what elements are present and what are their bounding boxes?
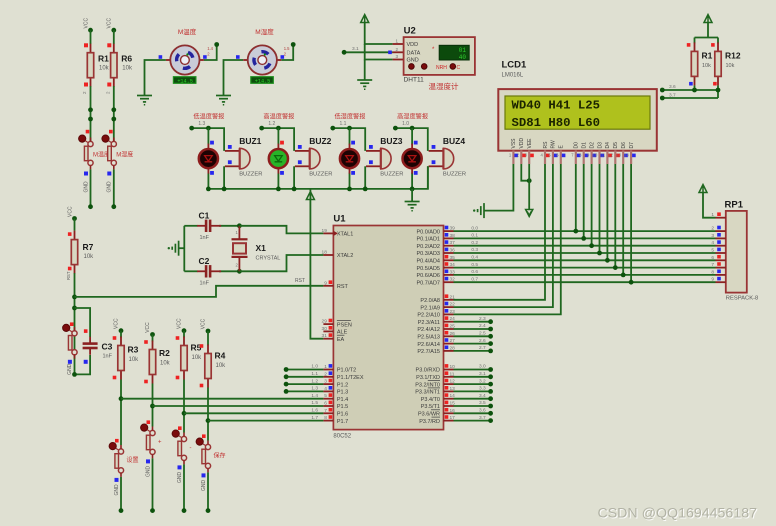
pin P3.3/INT1 (13) bbox=[444, 390, 454, 392]
wire to R12 bbox=[717, 38, 719, 44]
power arrow down LCD bbox=[526, 210, 533, 217]
node net 1.3 end bbox=[284, 389, 289, 394]
svg-text:R12: R12 bbox=[725, 51, 741, 61]
svg-text:1: 1 bbox=[711, 212, 714, 218]
pin RP1 9 bbox=[716, 281, 726, 283]
motor M2 bbox=[243, 45, 281, 84]
node bottom rail junction bbox=[292, 187, 297, 192]
node net end 1.3 bbox=[189, 126, 194, 131]
svg-text:BUZ4: BUZ4 bbox=[443, 136, 465, 146]
wire P2.4 net stub bbox=[454, 328, 491, 330]
svg-text:9: 9 bbox=[324, 280, 327, 286]
svg-text:GND: GND bbox=[177, 472, 183, 484]
svg-text:3.4: 3.4 bbox=[479, 393, 486, 399]
svg-text:1.3: 1.3 bbox=[311, 386, 318, 392]
svg-text:1.6: 1.6 bbox=[311, 408, 318, 414]
resistor R3 bbox=[118, 337, 124, 380]
pin P3.2/INT0 (12) bbox=[444, 383, 454, 385]
node net 3.5 end bbox=[488, 404, 493, 409]
svg-text:P3.3/INT1: P3.3/INT1 bbox=[415, 390, 440, 396]
svg-text:P3.0/RXD: P3.0/RXD bbox=[416, 368, 440, 374]
svg-text:P0.3/AD3: P0.3/AD3 bbox=[416, 251, 440, 257]
node net 2.7 end bbox=[488, 349, 493, 354]
svg-text:P2.7/A15: P2.7/A15 bbox=[417, 349, 440, 355]
wire P2.0 to LCD control bbox=[454, 164, 546, 300]
svg-text:P2.5/A13: P2.5/A13 bbox=[417, 335, 440, 341]
pin P0.5/AD5 (34) bbox=[444, 267, 454, 269]
wire buzzer BUZ1 down bbox=[223, 166, 225, 189]
wire U2 GND pin bbox=[365, 44, 393, 60]
pin P0.3/AD3 (36) bbox=[444, 252, 454, 254]
motor M1 bbox=[166, 45, 204, 84]
svg-text:P1.4: P1.4 bbox=[337, 397, 348, 403]
svg-text:1nF: 1nF bbox=[200, 281, 210, 287]
wire VCC to R2 bbox=[152, 335, 154, 342]
node net end 1.0 bbox=[393, 126, 398, 131]
svg-text:VCC: VCC bbox=[107, 18, 113, 29]
ground LCD VSS bbox=[478, 203, 484, 218]
node net 3.2 end bbox=[488, 382, 493, 387]
resistor R12 bbox=[715, 42, 721, 85]
svg-text:-: - bbox=[190, 446, 192, 452]
svg-text:PSEN: PSEN bbox=[337, 322, 352, 328]
node junction top BUZ1 bbox=[206, 126, 211, 131]
wire R1 to switch bbox=[90, 86, 92, 141]
svg-text:SD81 H80 L60: SD81 H80 L60 bbox=[512, 116, 601, 130]
svg-text:P2.0/A8: P2.0/A8 bbox=[420, 298, 440, 304]
wire buzzer BUZ4 down bbox=[427, 166, 429, 189]
svg-text:D0: D0 bbox=[574, 142, 580, 149]
svg-text:1.0: 1.0 bbox=[311, 364, 318, 370]
node P0.2 riser junction bbox=[589, 243, 594, 248]
svg-text:P2.6/A14: P2.6/A14 bbox=[417, 342, 440, 348]
node P0.4 riser junction bbox=[605, 258, 610, 263]
wire LED BUZ2 cathode down bbox=[277, 173, 279, 189]
node P0.5 riser junction bbox=[613, 265, 618, 270]
node VCC R2 bbox=[150, 332, 155, 337]
node junction R4 to P1 wire bbox=[206, 418, 211, 423]
node wire end R2 column bbox=[150, 508, 155, 513]
wire R2 to button bbox=[152, 384, 154, 427]
node XTAL2 net bbox=[237, 269, 242, 274]
capacitor C2 bbox=[197, 265, 221, 277]
wire top of group BUZ4 bbox=[395, 128, 427, 151]
wire RST to U1 pin 9 bbox=[75, 286, 324, 297]
svg-text:LCD1: LCD1 bbox=[502, 60, 528, 71]
node P0.6 riser junction bbox=[621, 273, 626, 278]
svg-text:C1: C1 bbox=[199, 211, 210, 221]
svg-text:C2: C2 bbox=[199, 256, 210, 266]
wire to C2 bbox=[184, 270, 197, 272]
node P0.1 riser junction bbox=[581, 236, 586, 241]
LED D-BUZ1 bbox=[199, 144, 218, 174]
svg-text:+14.5: +14.5 bbox=[177, 78, 193, 84]
svg-text:高湿度警报: 高湿度警报 bbox=[397, 113, 428, 121]
svg-text:D5: D5 bbox=[613, 142, 619, 149]
svg-text:1.3: 1.3 bbox=[198, 121, 205, 127]
svg-text:4: 4 bbox=[711, 240, 714, 246]
svg-text:P3.1/TXD: P3.1/TXD bbox=[416, 375, 440, 381]
pin P2.0/A8 (21) bbox=[444, 299, 454, 301]
svg-text:1.0: 1.0 bbox=[402, 121, 409, 127]
svg-text:10k: 10k bbox=[84, 254, 95, 260]
wire button 设置 to end bbox=[120, 477, 122, 511]
svg-text:WD40 H41 L25: WD40 H41 L25 bbox=[512, 98, 601, 112]
node net 3.4 end bbox=[488, 396, 493, 401]
svg-text:1.4: 1.4 bbox=[311, 393, 318, 399]
node junction top BUZ4 bbox=[410, 126, 415, 131]
svg-text:P1.3: P1.3 bbox=[337, 390, 348, 396]
wire riser D2 bbox=[591, 164, 593, 246]
wire LED BUZ4 cathode down bbox=[411, 173, 413, 189]
svg-text:3.2: 3.2 bbox=[479, 378, 486, 384]
wire to C1 bbox=[184, 225, 197, 227]
node VCC R3 bbox=[119, 328, 124, 333]
resistor pack RP1 bbox=[726, 211, 747, 293]
svg-text:GND: GND bbox=[83, 181, 89, 193]
pin XTAL1 (19) bbox=[323, 232, 333, 234]
wire C2 to crystal node bbox=[219, 270, 239, 272]
svg-text:D7: D7 bbox=[629, 142, 635, 149]
svg-text:P0.1/AD1: P0.1/AD1 bbox=[416, 237, 440, 243]
svg-text:U2: U2 bbox=[404, 26, 416, 37]
svg-text:2: 2 bbox=[711, 226, 714, 232]
svg-text:BUZZER: BUZZER bbox=[443, 172, 466, 178]
svg-text:10k: 10k bbox=[129, 357, 140, 363]
wire R7 to reset button bbox=[74, 273, 76, 376]
svg-text:RST: RST bbox=[295, 278, 305, 284]
wire button 保存 to end bbox=[207, 472, 209, 510]
resistor R7 bbox=[71, 231, 77, 274]
wire ground stub bbox=[179, 247, 185, 249]
push button 保存 bbox=[196, 438, 211, 472]
svg-text:4: 4 bbox=[324, 386, 327, 392]
svg-text:3.1: 3.1 bbox=[479, 371, 486, 377]
push button + bbox=[141, 424, 156, 458]
pin P0.1/AD1 (38) bbox=[444, 237, 454, 239]
wire VCC to RP1 pin1 bbox=[703, 193, 716, 218]
node reset loop top bbox=[72, 306, 77, 311]
wire VCC to R6 bbox=[113, 30, 115, 44]
wire P0.0 bus bbox=[454, 230, 716, 232]
VCC power R11 R12 bbox=[704, 15, 712, 23]
svg-text:0.4: 0.4 bbox=[471, 255, 478, 261]
svg-text:VCC: VCC bbox=[114, 318, 120, 329]
svg-text:GND: GND bbox=[114, 484, 120, 496]
svg-text:0.6: 0.6 bbox=[471, 269, 478, 275]
wire P3.3 net stub bbox=[454, 390, 491, 392]
pin P2.4/A12 (25) bbox=[444, 328, 454, 330]
svg-text:+14.5: +14.5 bbox=[255, 78, 271, 84]
wire to LED BUZ2 anode bbox=[277, 128, 279, 145]
pin P2.1/A9 (22) bbox=[444, 306, 454, 308]
svg-text:RST: RST bbox=[66, 271, 71, 280]
svg-text:P2.1/A9: P2.1/A9 bbox=[420, 305, 440, 311]
node net 1.0 end bbox=[284, 367, 289, 372]
svg-text:GND: GND bbox=[407, 58, 419, 64]
pin P1.3 (4) bbox=[323, 390, 333, 392]
wire R3 to button bbox=[120, 380, 122, 446]
node VCC junction R6 bbox=[111, 28, 116, 33]
svg-text:0.3: 0.3 bbox=[471, 247, 478, 253]
svg-text:P3.7/RD: P3.7/RD bbox=[419, 419, 440, 425]
push button - bbox=[172, 430, 187, 464]
node reset loop bottom bbox=[72, 372, 77, 377]
svg-text:10k: 10k bbox=[702, 63, 711, 69]
pin RP1 8 bbox=[716, 274, 726, 276]
resistor R11 bbox=[691, 42, 697, 85]
node net 3.1 end bbox=[488, 374, 493, 379]
node junction R1 a bbox=[88, 107, 93, 112]
svg-text:P1.1/T2EX: P1.1/T2EX bbox=[337, 375, 364, 381]
svg-text:P1.6: P1.6 bbox=[337, 412, 348, 418]
svg-text:VDD: VDD bbox=[407, 42, 419, 48]
svg-text:BUZZER: BUZZER bbox=[380, 172, 403, 178]
svg-text:2.6: 2.6 bbox=[479, 338, 486, 344]
svg-text:P1.7: P1.7 bbox=[337, 419, 348, 425]
node net 3.6 end bbox=[488, 411, 493, 416]
wire R6 to switch bbox=[113, 86, 115, 141]
node P0.7 riser junction bbox=[629, 280, 634, 285]
svg-text:P3.2/INT0: P3.2/INT0 bbox=[415, 382, 440, 388]
svg-text:GND: GND bbox=[107, 181, 113, 193]
wire top of group BUZ1 bbox=[192, 128, 224, 151]
wire P3.7 net stub bbox=[454, 420, 491, 422]
wire P2.7 net stub bbox=[454, 350, 491, 352]
wire P0.4 bus bbox=[454, 259, 716, 261]
svg-text:0.0: 0.0 bbox=[471, 225, 478, 231]
crystal X1 bbox=[232, 226, 248, 271]
node RST junction bbox=[72, 295, 77, 300]
pin P3.0/RXD (10) bbox=[444, 369, 454, 371]
svg-text:12: 12 bbox=[608, 153, 613, 158]
svg-text:P3.6/WR: P3.6/WR bbox=[418, 412, 440, 418]
svg-text:+: + bbox=[158, 440, 162, 446]
wire net 3.7 bbox=[662, 97, 718, 99]
ground crystal cap bbox=[172, 241, 178, 256]
wire riser D1 bbox=[583, 164, 585, 238]
svg-text:7: 7 bbox=[711, 262, 714, 268]
node wire end R1 column bbox=[88, 204, 93, 209]
wire R4 to button bbox=[207, 388, 209, 441]
svg-text:3.5: 3.5 bbox=[479, 400, 486, 406]
svg-text:11: 11 bbox=[601, 153, 606, 158]
svg-text:M湿度: M湿度 bbox=[255, 27, 274, 36]
svg-text:3.7: 3.7 bbox=[669, 92, 676, 98]
svg-text:R2: R2 bbox=[159, 348, 170, 358]
push button switch near R6 bbox=[102, 135, 117, 169]
wire P1.3 net bbox=[286, 390, 323, 392]
svg-text:7: 7 bbox=[324, 408, 327, 414]
wire R12 down bbox=[717, 85, 719, 98]
svg-text:EA: EA bbox=[337, 337, 345, 343]
node bottom rail junction bbox=[222, 187, 227, 192]
node net 2.6 end bbox=[488, 341, 493, 346]
node junction R6 a bbox=[111, 107, 116, 112]
node bottom rail junction bbox=[347, 187, 352, 192]
node net 2.5 end bbox=[488, 334, 493, 339]
wire VCC to R3 bbox=[120, 331, 122, 338]
svg-text:LM016L: LM016L bbox=[502, 73, 524, 79]
node VCC junction R1 bbox=[88, 28, 93, 33]
node P0.3 riser junction bbox=[597, 251, 602, 256]
node VCC R4 bbox=[206, 329, 211, 334]
svg-text:29: 29 bbox=[322, 319, 328, 325]
svg-text:3.6: 3.6 bbox=[669, 84, 676, 90]
pin P1.6 (7) bbox=[323, 412, 333, 414]
svg-text:3.3: 3.3 bbox=[479, 386, 486, 392]
node XTAL1 net bbox=[237, 223, 242, 228]
node motor M2 net end bbox=[291, 42, 296, 47]
pin P0.4/AD4 (35) bbox=[444, 259, 454, 261]
wire P2.1 to LCD control bbox=[454, 164, 553, 307]
svg-text:31: 31 bbox=[322, 333, 328, 339]
wire LED BUZ3 cathode down bbox=[349, 173, 351, 189]
node net end 1.1 bbox=[330, 126, 335, 131]
pin P1.5 (6) bbox=[323, 405, 333, 407]
ground U2 bbox=[357, 80, 372, 86]
wire buzzer bottom rail to BUZ4 bbox=[208, 166, 428, 189]
svg-text:高温度警报: 高温度警报 bbox=[263, 113, 294, 121]
svg-text:1.2: 1.2 bbox=[268, 121, 275, 127]
wire VCC to EA bbox=[310, 189, 323, 339]
ground motor M1 bbox=[137, 96, 152, 102]
svg-text:1nF: 1nF bbox=[103, 354, 113, 360]
node R11 junction bbox=[692, 88, 697, 93]
svg-text:P0.7/AD7: P0.7/AD7 bbox=[416, 280, 440, 286]
wire P1.1 net bbox=[286, 376, 323, 378]
svg-text:RW: RW bbox=[551, 140, 557, 149]
resistor R5 bbox=[181, 337, 187, 380]
wire motor M1 left to ground bbox=[145, 60, 166, 96]
pin P2.3/A11 (24) bbox=[444, 321, 454, 323]
pin P1.0/T2 (1) bbox=[323, 369, 333, 371]
svg-text:2.7: 2.7 bbox=[479, 345, 486, 351]
wire button - to end bbox=[183, 464, 185, 510]
wire P0.7 bus bbox=[454, 281, 716, 283]
svg-text:ALE: ALE bbox=[337, 330, 348, 336]
wire VCC to R4 bbox=[207, 331, 209, 346]
wire buzzer BUZ3 down bbox=[364, 166, 366, 189]
wire cap common vertical bbox=[183, 226, 185, 271]
node R12 crossing bbox=[716, 88, 721, 93]
svg-text:2: 2 bbox=[324, 371, 327, 377]
svg-text:1.5: 1.5 bbox=[284, 46, 290, 51]
node junction R2 to P1 wire bbox=[150, 404, 155, 409]
wire riser D6 bbox=[622, 164, 624, 275]
wire top of group BUZ2 bbox=[262, 128, 294, 151]
node junction R6 b bbox=[111, 117, 116, 122]
wire riser D3 bbox=[599, 164, 601, 253]
wire VCC to R1 bbox=[90, 30, 92, 44]
wire P0.5 bus bbox=[454, 267, 716, 269]
svg-text:RST: RST bbox=[337, 284, 349, 290]
buzzer BUZ1 bbox=[225, 148, 250, 169]
wire P0.6 bus bbox=[454, 274, 716, 276]
wire motor M2 left to ground bbox=[224, 60, 244, 96]
wire riser D7 bbox=[630, 164, 632, 282]
push button 设置 bbox=[109, 443, 124, 477]
svg-text:5: 5 bbox=[711, 248, 714, 254]
node bottom rail junction bbox=[276, 187, 281, 192]
wire to XTAL2 bbox=[239, 255, 323, 271]
pin P0.7/AD7 (32) bbox=[444, 281, 454, 283]
wire P1.5 to button column bbox=[153, 405, 324, 407]
wire P1.7 to button column bbox=[208, 420, 323, 422]
svg-text:P1.2: P1.2 bbox=[337, 382, 348, 388]
svg-text:6: 6 bbox=[324, 401, 327, 407]
wire R11 down bbox=[694, 85, 696, 90]
svg-text:DHT11: DHT11 bbox=[404, 77, 424, 84]
pin P1.4 (5) bbox=[323, 398, 333, 400]
pin ALE (30) bbox=[323, 330, 333, 332]
wire P0.3 bus bbox=[454, 252, 716, 254]
wire net 3.6 bbox=[662, 89, 718, 91]
wire U2 DATA net bbox=[344, 51, 393, 53]
svg-text:13: 13 bbox=[616, 153, 621, 158]
svg-text:P0.5/AD5: P0.5/AD5 bbox=[416, 266, 440, 272]
svg-text:DATA: DATA bbox=[407, 51, 421, 57]
pin RP1 5 bbox=[716, 252, 726, 254]
svg-text:NRH: NRH bbox=[436, 65, 447, 71]
svg-text:P0.6/AD6: P0.6/AD6 bbox=[416, 273, 440, 279]
wire P1.0 net bbox=[286, 369, 323, 371]
svg-text:19: 19 bbox=[322, 228, 328, 234]
svg-text:3.1: 3.1 bbox=[352, 46, 359, 52]
wire VCC to R5 bbox=[183, 331, 185, 338]
svg-text:9: 9 bbox=[711, 277, 714, 283]
svg-text:设置: 设置 bbox=[127, 456, 139, 464]
node net 3.7 end bbox=[488, 418, 493, 423]
svg-text:C3: C3 bbox=[102, 342, 113, 352]
wire top of group BUZ3 bbox=[333, 128, 365, 151]
svg-text:VEE: VEE bbox=[527, 138, 533, 149]
ground buzzer rail bbox=[405, 202, 420, 208]
pin RP1 4 bbox=[716, 245, 726, 247]
wire to XTAL1 bbox=[239, 226, 323, 234]
node wire end R5 column bbox=[182, 508, 187, 513]
buzzer BUZ2 bbox=[295, 148, 320, 169]
svg-text:P3.4/T0: P3.4/T0 bbox=[421, 397, 440, 403]
wire VCC down bbox=[707, 23, 709, 38]
node VCC R7 bbox=[72, 216, 77, 221]
svg-text:X1: X1 bbox=[256, 243, 267, 253]
node junction R1 b bbox=[88, 117, 93, 122]
svg-text:XTAL1: XTAL1 bbox=[337, 232, 353, 238]
svg-text:1nF: 1nF bbox=[200, 235, 210, 241]
pin P3.6/WR (16) bbox=[444, 412, 454, 414]
svg-text:1.7: 1.7 bbox=[311, 415, 318, 421]
push button switch near R1 bbox=[79, 135, 94, 169]
LCD display LCD1 bbox=[498, 89, 657, 151]
node net end 1.2 bbox=[259, 126, 264, 131]
svg-text:VCC: VCC bbox=[201, 318, 207, 329]
wire motor M1 right bbox=[204, 45, 217, 61]
capacitor C3 bbox=[83, 337, 98, 355]
svg-text:D2: D2 bbox=[589, 142, 595, 149]
svg-text:RP1: RP1 bbox=[725, 200, 744, 211]
pin P1.7 (8) bbox=[323, 420, 333, 422]
microcontroller U1 80C52 bbox=[333, 226, 443, 430]
svg-text:1: 1 bbox=[324, 364, 327, 370]
node net 2.3 end bbox=[488, 319, 493, 324]
resistor R1 bbox=[87, 44, 93, 87]
node bottom rail junction bbox=[410, 187, 415, 192]
wire P2.2 to LCD control bbox=[454, 164, 561, 314]
buzzer BUZ3 bbox=[366, 148, 391, 169]
wire loop to C3 top bbox=[75, 308, 91, 337]
pin P2.7/A15 (28) bbox=[444, 350, 454, 352]
